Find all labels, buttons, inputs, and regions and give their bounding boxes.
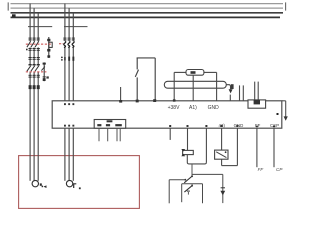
svg-text:GND: GND	[208, 105, 220, 111]
svg-text:A1): A1)	[189, 105, 197, 111]
svg-text:+38V: +38V	[168, 105, 180, 111]
svg-text:CP: CP	[276, 167, 283, 172]
svg-text:GND: GND	[234, 123, 244, 128]
